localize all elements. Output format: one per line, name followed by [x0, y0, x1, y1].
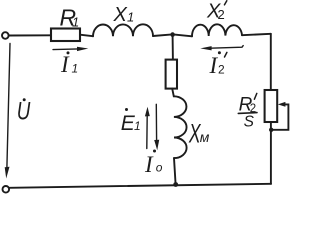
wire node A to X2': [175, 35, 192, 37]
svg-text:I: I: [60, 52, 70, 77]
arrow U (voltage, down): [7, 44, 10, 168]
wire right rail lower: [270, 122, 272, 184]
junction dot below R2'/S: [269, 128, 273, 132]
label I1: [60, 51, 78, 77]
resistor mid branch: [166, 60, 177, 89]
svg-text:2: 2: [218, 7, 225, 22]
terminal top-left: [2, 32, 9, 39]
node B junction bottom: [173, 182, 178, 187]
svg-text:2: 2: [218, 63, 225, 77]
wire top-left to R1: [9, 34, 51, 36]
svg-text:1: 1: [134, 119, 141, 133]
wire node A down to mid box: [172, 37, 174, 60]
inductor X2': [192, 24, 242, 36]
wire X1 to node A: [153, 35, 171, 36]
svg-text:1: 1: [127, 10, 134, 25]
wire right rail upper: [270, 34, 272, 90]
wire mid box to Xm: [172, 89, 174, 97]
label R2'/S: [238, 93, 257, 130]
svg-text:м: м: [200, 129, 210, 145]
arrow I1 (right): [53, 48, 79, 51]
svg-text:X: X: [113, 4, 128, 26]
label I2': [209, 51, 227, 78]
label X2': [206, 0, 227, 22]
rheostat tap arrow on R2'/S: [273, 104, 289, 129]
wire Xm to bottom: [174, 158, 176, 184]
svg-text:S: S: [244, 114, 255, 131]
label U: [17, 97, 31, 125]
svg-text:I: I: [144, 152, 154, 177]
resistor R1: [51, 29, 80, 42]
svg-text:o: o: [156, 161, 163, 175]
arrow I2' (left): [211, 46, 244, 49]
wire X2' to right rail: [242, 34, 271, 35]
inductor X1: [93, 24, 153, 36]
label X1: [113, 4, 135, 26]
arrow I0 (down): [155, 104, 157, 140]
label I0: [144, 150, 163, 178]
svg-text:1: 1: [72, 15, 79, 30]
resistor R2'/S: [265, 90, 278, 122]
label R1: [60, 5, 80, 31]
label E1: [121, 108, 141, 135]
terminal bottom-left: [3, 186, 10, 193]
svg-text:I: I: [209, 53, 219, 78]
inductor Xm: [174, 96, 187, 158]
svg-text:1: 1: [72, 62, 79, 76]
wire R1 to X1: [80, 35, 93, 37]
node A junction: [170, 32, 175, 37]
wire bottom: [10, 184, 272, 188]
arrow E1 (up): [146, 115, 148, 149]
label Xm: [188, 118, 210, 149]
